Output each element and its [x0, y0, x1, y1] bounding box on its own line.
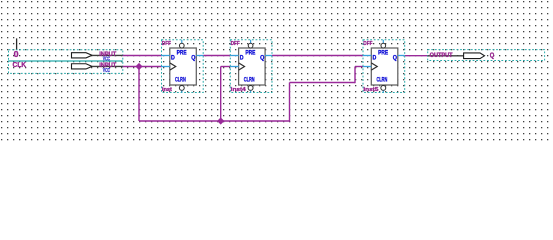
- svg-text:D: D: [373, 54, 377, 61]
- inst4 Q output stub: [265, 55, 272, 57]
- inst PRE stub: [181, 40, 183, 43]
- inst CLRN stub: [181, 91, 183, 93]
- svg-text:PRE: PRE: [378, 49, 389, 56]
- inst4 body: [239, 48, 266, 85]
- input pin D0 pennant: [72, 53, 93, 58]
- inst5 PRE stub: [382, 40, 384, 43]
- wire: pin CLK to U1.CLK: [123, 66, 162, 68]
- input pin D0 bounding box: [9, 50, 123, 61]
- svg-text:OUTPUT: OUTPUT: [430, 52, 453, 59]
- svg-text:PRE: PRE: [177, 49, 188, 56]
- inst body: [170, 48, 197, 85]
- output pin Q pennant: [464, 53, 485, 59]
- svg-text:Q: Q: [191, 54, 195, 61]
- wire: vertical up to U3 clock level: [354, 67, 356, 84]
- wire: horizontal jog toward U3 clock: [290, 82, 356, 84]
- wire: U1.Q to U2.D: [203, 55, 230, 57]
- inst CLRN bubble: [179, 85, 184, 90]
- svg-text:PRE: PRE: [245, 49, 256, 56]
- inst clock triangle: [170, 63, 176, 70]
- inst4 clock triangle: [239, 63, 245, 70]
- inst5 CLRN stub: [382, 91, 384, 93]
- inst5 CLRN bubble: [381, 85, 386, 90]
- wire: horizontal into U3 clock: [355, 66, 363, 68]
- inst Q output stub: [196, 55, 203, 57]
- svg-text:DFF: DFF: [162, 41, 172, 47]
- svg-text:CLRN: CLRN: [244, 76, 255, 83]
- input pin CLK lead: [92, 65, 123, 67]
- inst PRE bubble: [179, 43, 184, 48]
- svg-text:CLRN: CLRN: [175, 76, 186, 83]
- D flip-flop U (inst4) bounding box: [230, 40, 272, 93]
- boundary line between input pin boxes: [9, 60, 123, 62]
- svg-text:inst5: inst5: [363, 87, 379, 93]
- input pin CLK bounding box: [9, 61, 123, 73]
- output pin Q lead: [428, 55, 464, 57]
- wire: horizontal into U2 clock: [221, 66, 231, 68]
- inst5 Q output stub: [398, 55, 405, 57]
- inst5 clock triangle: [371, 63, 377, 70]
- inst5 D input stub: [363, 55, 371, 57]
- svg-text:CLK: CLK: [13, 60, 27, 69]
- svg-text:D: D: [171, 54, 175, 61]
- inst5 clock input stub: [363, 66, 371, 68]
- wire: bottom clk bus horizontal: [139, 120, 290, 122]
- D flip-flop U (inst) bounding box: [162, 40, 204, 93]
- svg-text:VCC: VCC: [103, 68, 110, 74]
- svg-text:CLRN: CLRN: [377, 76, 388, 83]
- wire: U3.Q to output pin Q: [405, 55, 428, 57]
- wire: vertical riser at x289 for U3 clock: [289, 83, 291, 122]
- svg-text:Q: Q: [490, 51, 495, 60]
- svg-text:D: D: [240, 54, 244, 61]
- inst5 PRE bubble: [381, 43, 386, 48]
- inst4 PRE bubble: [248, 43, 253, 48]
- svg-text:Q: Q: [260, 54, 264, 61]
- input pin CLK pennant: [72, 64, 93, 69]
- inst4 D input stub: [230, 55, 238, 57]
- junction B on bottom clk bus: [218, 118, 224, 124]
- inst clock input stub: [162, 66, 170, 68]
- svg-text:inst4: inst4: [231, 87, 247, 93]
- inst4 CLRN bubble: [248, 85, 253, 90]
- inst4 clock input stub: [230, 66, 238, 68]
- svg-text:DFF: DFF: [363, 41, 373, 47]
- inst5 body: [371, 48, 398, 85]
- wire: U2.Q to U3.D: [272, 55, 363, 57]
- svg-text:DFF: DFF: [231, 41, 241, 47]
- input pin D0 lead: [92, 54, 123, 56]
- wire: vertical riser to U2 clock: [220, 67, 222, 122]
- svg-text:0: 0: [14, 50, 20, 59]
- junction A at clk net: [136, 63, 142, 69]
- wire: pin D0 to U1.D: [123, 55, 162, 57]
- svg-text:Q: Q: [393, 54, 397, 61]
- inst D input stub: [162, 55, 170, 57]
- D flip-flop U (inst5) bounding box: [363, 40, 405, 93]
- inst4 CLRN stub: [250, 91, 252, 93]
- dangling wire stub above pin name: [16, 38, 18, 49]
- wire: clk vertical drop from junction A: [138, 67, 140, 122]
- output pin Q bounding box: [428, 50, 545, 61]
- inst4 PRE stub: [250, 40, 252, 43]
- svg-text:inst: inst: [162, 87, 172, 93]
